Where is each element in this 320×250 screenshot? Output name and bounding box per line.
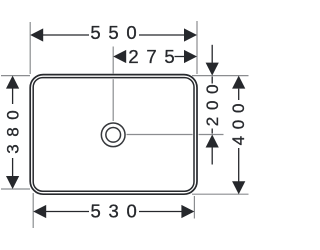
reference line bottom right (rim bottom) for 400 dim [192,193,249,195]
svg-text:5: 5 [108,22,118,43]
arrow 200 up (tip on drain centre line) [206,135,219,148]
dimension line 380 [12,88,14,104]
basin outer rim (rounded rectangle) [30,75,197,195]
svg-text:5: 5 [164,46,174,67]
arrow 550 right [184,28,197,41]
svg-text:0: 0 [203,84,222,93]
extension line right of 530 dim [193,196,195,219]
svg-text:4: 4 [229,136,248,145]
extension line right of 550 dim [196,21,198,74]
label 275 [128,46,174,67]
drain outer circle [101,123,125,147]
svg-text:2: 2 [128,46,138,67]
arrow 275 left [113,50,126,63]
arrow 400 down (tip on rim bottom line) [232,181,245,194]
extension line from drain centre for 275 dim [112,47,114,74]
arrow 275 right [184,50,197,63]
basin inner bowl edge [33,78,194,192]
svg-text:3: 3 [4,144,23,153]
dimension line 200 stubs [211,77,213,84]
label 550 [90,22,136,43]
reference line top left (bowl top) for 380 dim [1,75,30,77]
dimension line 530 [45,211,89,213]
label 200 (rotated) [203,84,222,126]
reference line drain centre right for 200 dim [127,134,193,136]
svg-text:5: 5 [90,22,100,43]
svg-text:7: 7 [146,46,156,67]
arrow 380 down [6,176,19,189]
arrow 380 up [6,76,19,89]
label 380 (rotated) [4,110,23,153]
arrow 530 right [181,205,194,218]
label 530 [91,201,137,222]
arrow 400 up (tip on rim top line) [232,76,245,89]
svg-text:5: 5 [91,201,101,222]
reference line top right (rim top) for 200/400 dims [192,75,249,77]
label 400 (rotated) [229,104,248,146]
svg-text:0: 0 [127,201,137,222]
svg-text:2: 2 [203,117,222,126]
svg-text:0: 0 [229,120,248,129]
svg-text:0: 0 [126,22,136,43]
arrow 530 left [33,205,46,218]
svg-text:0: 0 [229,104,248,113]
dimension line 400 [238,89,240,100]
dimension tail 200 bottom [211,148,213,165]
extension line left of 550 dim [29,22,31,74]
dimension line 275 [175,56,186,58]
arrow 200 down (tip on rim top line) [206,63,219,76]
reference line bottom left (bowl bottom) for 380 dim [1,188,30,190]
dimension line 550 [42,34,89,36]
svg-text:0: 0 [203,101,222,110]
svg-text:3: 3 [109,201,119,222]
drain inner circle [106,127,121,142]
svg-text:8: 8 [4,127,23,136]
dimension tail 200 top [211,45,213,63]
arrow 550 left [30,28,43,41]
svg-text:0: 0 [4,110,23,119]
extension line left of 530 dim [32,193,34,228]
